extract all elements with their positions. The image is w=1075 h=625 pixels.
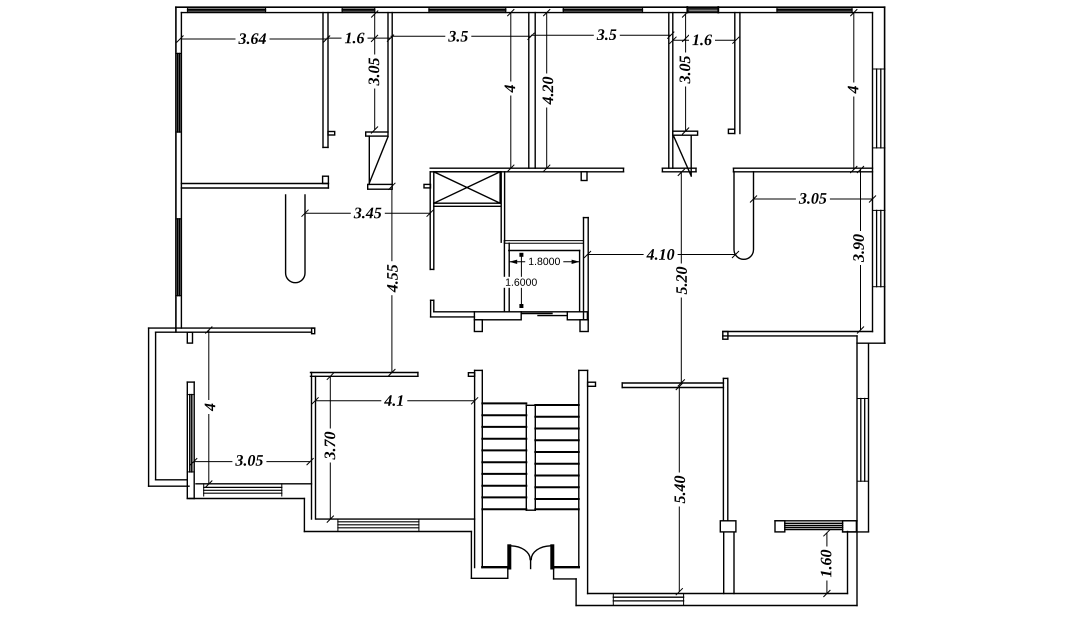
dimension label 3.5 <box>594 27 620 42</box>
interior wall D with door (right) <box>668 13 670 169</box>
dimension label 3.05 <box>232 453 266 468</box>
wing top wall <box>149 327 315 329</box>
door U2 (mid-right room door) <box>734 172 754 260</box>
stub at its left end <box>723 332 728 340</box>
dim 1.6 top left <box>327 37 391 39</box>
interior wall A (between 3.64 and 1.6 rooms) <box>322 13 324 148</box>
dimension label 3.5 <box>445 29 471 44</box>
dimensions layer <box>177 32 740 44</box>
window right RW1 <box>873 69 886 148</box>
dim 3.05 left bottom <box>194 461 310 463</box>
dimension label 3.70 (rotated) <box>322 429 337 463</box>
dim 5.20 <box>680 172 682 383</box>
dim 4.10 <box>588 254 736 256</box>
elevator shaft <box>434 172 500 203</box>
dim 3.70 <box>329 376 331 519</box>
dim 4 mid vertical <box>510 13 512 169</box>
dimension label 1.6000 <box>502 277 540 288</box>
dimension label 3.90 (rotated) <box>851 231 866 265</box>
stub up at its right end <box>323 176 329 183</box>
dimension texts <box>202 27 866 580</box>
bottom-left room right wall <box>311 373 313 520</box>
dim 3.05 left vertical <box>374 14 376 130</box>
dim 3.90 <box>860 170 862 331</box>
window right RW3 <box>857 399 869 482</box>
right wall step <box>857 342 885 344</box>
bottom wall right wing <box>588 593 848 595</box>
dimension label 1.8000 <box>525 256 563 267</box>
dimension label 3.45 <box>351 205 385 220</box>
interior wall E (right 1.6) <box>734 13 736 134</box>
dimension label 3.05 (rotated) <box>677 53 692 87</box>
window left LW1 <box>176 54 182 133</box>
dim 1.8000 <box>509 261 579 263</box>
dim 3.45 <box>305 212 430 214</box>
small room bottom window lines <box>521 313 552 315</box>
window top W5 <box>777 7 852 13</box>
dim 4.1 <box>315 400 475 402</box>
window top W1 <box>188 7 266 13</box>
dim 1.6 top right <box>673 39 736 41</box>
dimension label 1.6 <box>342 30 368 45</box>
small room right wall <box>579 251 581 312</box>
window in it <box>204 484 282 496</box>
elevator lobby L wall lower <box>430 300 432 317</box>
bottom-left room bottom wall <box>196 483 312 485</box>
window top W3 <box>563 7 642 13</box>
dim 3.05 right vertical <box>685 14 687 131</box>
entry door jambs <box>508 545 511 569</box>
dimension label 5.40 (rotated) <box>672 473 687 507</box>
step down from room to corridor outer <box>303 499 305 532</box>
dim 3.5 top first <box>391 35 532 37</box>
window in bottom wall <box>613 594 683 606</box>
dimension label 4.55 (rotated) <box>385 261 400 295</box>
wall above stairs right (y=383-387.5) <box>622 382 723 384</box>
dimension label 4.1 <box>381 393 407 408</box>
exterior left wall <box>175 7 177 332</box>
mid horizontal wall row y=168-172 <box>430 167 623 169</box>
elevator lobby left wall <box>429 172 431 270</box>
bottom-right rooms divider wall <box>722 378 724 520</box>
center band blocks <box>474 312 521 320</box>
bottom-left room top wall <box>311 372 418 374</box>
stair divider <box>525 405 527 510</box>
window in it <box>338 519 419 531</box>
bottom-left wing outer <box>148 328 150 486</box>
window top W2 <box>429 7 506 13</box>
interior wall C (between the two 3.5 rooms) <box>528 13 530 169</box>
exterior top wall <box>176 6 885 8</box>
dim 3.5 top second <box>531 34 671 36</box>
dim 4 right vertical <box>853 13 855 170</box>
dimension label 4 (rotated) <box>502 82 517 96</box>
window top W1b <box>342 7 375 13</box>
dim 3.05 right middle <box>754 198 873 200</box>
window right RW2 <box>873 210 886 286</box>
wall mid-right room bottom <box>723 331 873 333</box>
balcony band right <box>775 520 857 522</box>
interior wall top-left room bottom <box>181 183 328 185</box>
small room top wall <box>504 240 583 242</box>
dimension label 4.20 (rotated) <box>540 74 555 108</box>
dim 4 left bottom <box>208 330 210 484</box>
entry door arcs <box>511 546 530 560</box>
interior wall B with door (left) <box>387 13 389 132</box>
stairwell right wall <box>578 370 580 567</box>
dim 5.40 <box>678 387 680 592</box>
stair treads left flight <box>482 403 526 509</box>
hall wall <box>583 218 585 320</box>
dimension label 3.64 <box>236 31 270 46</box>
stairwell left wall <box>474 370 476 567</box>
small room left wall <box>503 241 505 312</box>
exterior right wall lower <box>856 336 858 606</box>
window left LW2 <box>176 219 182 296</box>
window top W4 small <box>687 7 718 13</box>
dim 1.6000 <box>520 255 522 306</box>
dim 4.55 <box>391 186 393 372</box>
dimension label 1.60 (rotated) <box>819 547 834 581</box>
door U1 (top-left room door) <box>286 195 305 283</box>
entry walls <box>482 566 508 568</box>
dimension label 4 (rotated) <box>202 400 217 414</box>
corridor wall above small room <box>500 172 502 242</box>
window wall of bottom-left room <box>186 382 188 498</box>
entry outline right <box>553 568 555 579</box>
dimension label 3.05 (rotated) <box>366 55 381 89</box>
stub above window wall <box>187 332 192 343</box>
dimension label 4 (rotated) <box>846 83 861 97</box>
dimension label 1.6 <box>689 32 715 47</box>
dimension label 4.10 <box>644 247 678 262</box>
corridor bottom wall (left of stairs) <box>316 518 474 520</box>
dimension label 5.20 (rotated) <box>674 264 689 298</box>
dim 1.60 <box>826 533 828 594</box>
dim 4.20 vertical <box>546 13 548 169</box>
stair treads right flight <box>535 405 579 509</box>
window in it <box>187 395 194 472</box>
dimension label 3.05 <box>796 191 830 206</box>
entry outline left <box>470 532 472 579</box>
exterior right wall upper <box>884 7 886 343</box>
dim 3.64 top <box>182 38 327 40</box>
